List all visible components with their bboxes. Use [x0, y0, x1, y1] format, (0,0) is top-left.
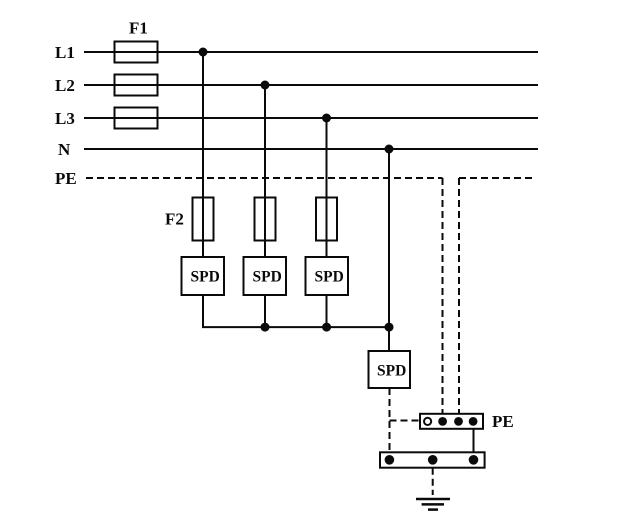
wire N branch drop — [388, 149, 390, 351]
PE terminal bar — [420, 414, 483, 429]
junction N branch — [385, 145, 394, 154]
fuse F2c — [316, 198, 337, 241]
svg-text:SPD: SPD — [315, 269, 344, 286]
wire SPD U3 to bus — [326, 295, 328, 327]
SPD U2 — [244, 257, 287, 295]
wire SPD U1 to bus — [202, 295, 204, 327]
wire PE drop 2 (dashed) — [458, 178, 460, 414]
wire PE left segment — [86, 177, 443, 179]
svg-text:L2: L2 — [55, 76, 75, 95]
junction L2 branch — [261, 81, 270, 90]
SPD U1 — [182, 257, 225, 295]
svg-text:SPD: SPD — [191, 269, 220, 286]
fuse F2a — [193, 198, 214, 241]
svg-text:F1: F1 — [129, 19, 148, 38]
junction bus U2 — [261, 323, 270, 332]
equipotential bonding bar — [380, 452, 485, 467]
wire PE right segment — [459, 177, 535, 179]
junction L3 branch — [322, 114, 331, 123]
fuse F1b on L2 — [115, 75, 158, 96]
svg-text:L1: L1 — [55, 43, 75, 62]
svg-text:SPD: SPD — [253, 269, 282, 286]
junction L1 branch — [199, 48, 208, 57]
svg-text:F2: F2 — [165, 210, 184, 229]
wire bonding bar to earth (dashed) — [432, 468, 434, 495]
wire PE bar to bonding bar — [473, 429, 475, 453]
junction bus N drop — [385, 323, 394, 332]
svg-text:L3: L3 — [55, 109, 75, 128]
wire L3 branch drop — [326, 118, 328, 257]
wire PE drop 1 (dashed) — [442, 178, 444, 414]
wire SPD common bus — [202, 326, 389, 328]
fuse F1c on L3 — [115, 108, 158, 129]
svg-text:SPD: SPD — [377, 363, 406, 380]
SPD U4 — [369, 351, 411, 388]
svg-text:PE: PE — [55, 169, 77, 188]
wire L2 — [84, 84, 538, 86]
wire L3 — [84, 117, 538, 119]
svg-text:PE: PE — [492, 412, 514, 431]
wire L2 branch drop — [264, 85, 266, 257]
wire SPD U2 to bus — [264, 295, 266, 327]
wire dashed branch to PE bar — [390, 420, 421, 422]
svg-text:N: N — [58, 140, 71, 159]
wire L1 — [84, 51, 538, 53]
SPD U3 — [306, 257, 349, 295]
fuse F2b — [255, 198, 276, 241]
junction bus U3 — [322, 323, 331, 332]
fuse F1a on L1 — [115, 42, 158, 63]
wire L1 branch drop — [202, 52, 204, 257]
ground — [416, 499, 450, 510]
wire SPD U4 earth lead (dashed) — [389, 388, 391, 452]
wire N — [84, 148, 538, 150]
